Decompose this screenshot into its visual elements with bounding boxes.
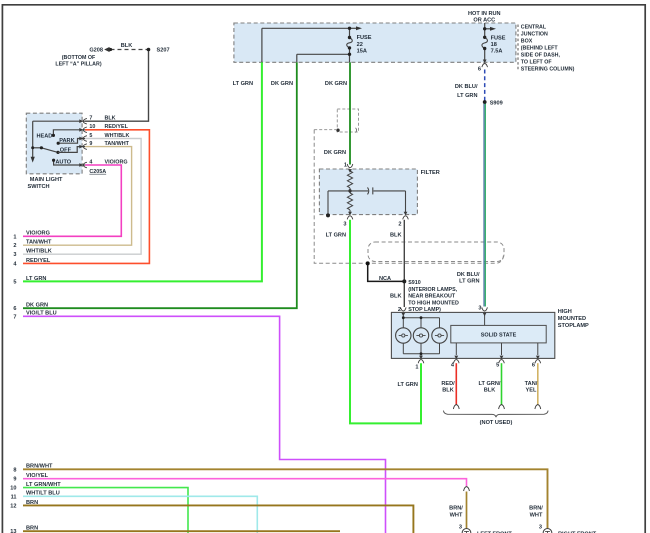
- svg-text:JUNCTION: JUNCTION: [521, 31, 548, 37]
- svg-text:STOP LAMP): STOP LAMP): [408, 307, 441, 313]
- svg-text:DK GRN: DK GRN: [271, 81, 293, 87]
- svg-text:BRN/: BRN/: [449, 506, 463, 512]
- svg-text:S910: S910: [408, 280, 421, 286]
- svg-text:HOT IN RUN: HOT IN RUN: [468, 11, 501, 17]
- svg-text:18: 18: [491, 42, 497, 48]
- svg-text:3: 3: [478, 306, 481, 312]
- svg-text:SOLID STATE: SOLID STATE: [481, 333, 517, 339]
- svg-text:LT GRN: LT GRN: [397, 382, 417, 388]
- svg-text:LT GRN/WHT: LT GRN/WHT: [26, 482, 61, 488]
- svg-text:1: 1: [13, 234, 16, 240]
- svg-text:STEERING COLUMN): STEERING COLUMN): [521, 67, 575, 73]
- svg-text:BRN/WHT: BRN/WHT: [26, 464, 53, 470]
- svg-text:LT GRN: LT GRN: [457, 93, 477, 99]
- svg-text:RED/YEL: RED/YEL: [26, 258, 51, 264]
- svg-text:WHT/BLK: WHT/BLK: [26, 249, 52, 255]
- svg-text:PARK: PARK: [59, 138, 74, 144]
- svg-text:3: 3: [343, 221, 346, 227]
- svg-text:9: 9: [89, 141, 92, 147]
- svg-text:8: 8: [13, 467, 16, 473]
- svg-text:10: 10: [89, 124, 95, 130]
- svg-text:CENTRAL: CENTRAL: [521, 24, 547, 30]
- svg-text:BRN/: BRN/: [529, 506, 543, 512]
- svg-text:S207: S207: [157, 48, 170, 54]
- svg-text:6: 6: [532, 363, 535, 369]
- svg-text:VIO/ORG: VIO/ORG: [26, 231, 50, 237]
- svg-text:BRN: BRN: [26, 526, 38, 532]
- svg-text:TAN/: TAN/: [525, 381, 538, 387]
- svg-text:3: 3: [539, 525, 542, 531]
- svg-text:2: 2: [398, 221, 401, 227]
- svg-text:10: 10: [10, 486, 16, 492]
- svg-text:NCA: NCA: [379, 276, 391, 282]
- svg-text:1: 1: [415, 365, 418, 371]
- svg-text:7: 7: [89, 116, 92, 122]
- svg-text:DK BLU/: DK BLU/: [455, 84, 478, 90]
- svg-text:6: 6: [478, 66, 481, 72]
- svg-text:5: 5: [496, 363, 499, 369]
- svg-text:11: 11: [11, 494, 17, 500]
- svg-text:12: 12: [10, 503, 16, 509]
- svg-text:RED/: RED/: [441, 381, 455, 387]
- svg-text:BLK: BLK: [484, 388, 496, 394]
- svg-text:2: 2: [13, 243, 16, 249]
- svg-text:BLK: BLK: [442, 388, 454, 394]
- svg-text:MOUNTED: MOUNTED: [558, 316, 586, 322]
- svg-text:6: 6: [13, 306, 16, 312]
- svg-text:BOX: BOX: [521, 39, 533, 45]
- svg-text:(NOT USED): (NOT USED): [480, 420, 513, 426]
- svg-text:BLK: BLK: [121, 43, 133, 49]
- svg-text:TO LEFT OF: TO LEFT OF: [521, 60, 553, 66]
- svg-text:MAIN LIGHT: MAIN LIGHT: [30, 177, 63, 183]
- svg-text:S909: S909: [490, 100, 503, 106]
- svg-text:13: 13: [10, 529, 16, 533]
- svg-text:LEFT “A” PILLAR): LEFT “A” PILLAR): [55, 62, 101, 68]
- svg-text:STOPLAMP: STOPLAMP: [558, 323, 589, 329]
- svg-text:9: 9: [13, 477, 16, 483]
- svg-text:DK BLU/: DK BLU/: [457, 272, 480, 278]
- svg-text:(BEHIND LEFT: (BEHIND LEFT: [521, 46, 559, 52]
- svg-text:SWITCH: SWITCH: [28, 184, 50, 190]
- svg-text:C205A: C205A: [89, 169, 106, 175]
- svg-text:BRN: BRN: [26, 500, 38, 506]
- svg-text:(INTERIOR LAMPS,: (INTERIOR LAMPS,: [408, 287, 457, 293]
- svg-text:TAN/WHT: TAN/WHT: [105, 141, 130, 147]
- svg-text:LT GRN: LT GRN: [233, 81, 253, 87]
- svg-text:LT GRN/: LT GRN/: [479, 381, 501, 387]
- svg-text:5: 5: [89, 133, 92, 139]
- svg-text:HIGH: HIGH: [558, 309, 572, 315]
- svg-text:3: 3: [459, 525, 462, 531]
- svg-text:WHT: WHT: [450, 512, 463, 518]
- svg-text:1: 1: [344, 163, 347, 169]
- svg-text:BLK: BLK: [390, 293, 402, 299]
- svg-text:5: 5: [13, 279, 16, 285]
- svg-text:NEAR BREAKOUT: NEAR BREAKOUT: [408, 294, 456, 300]
- svg-text:BLK: BLK: [105, 116, 116, 122]
- svg-text:WHT: WHT: [530, 512, 543, 518]
- svg-text:HEAD: HEAD: [36, 134, 52, 140]
- svg-text:FUSE: FUSE: [491, 35, 506, 41]
- svg-text:AUTO: AUTO: [55, 159, 71, 165]
- svg-text:VIO/YEL: VIO/YEL: [26, 473, 49, 479]
- svg-text:7: 7: [13, 314, 16, 320]
- svg-text:VIO/LT BLU: VIO/LT BLU: [26, 311, 57, 317]
- svg-text:OR ACC: OR ACC: [473, 18, 495, 24]
- svg-text:SIDE OF DASH,: SIDE OF DASH,: [521, 53, 561, 59]
- svg-text:FILTER: FILTER: [421, 170, 440, 176]
- svg-text:FUSE: FUSE: [357, 35, 372, 41]
- svg-text:G208: G208: [89, 48, 103, 54]
- svg-text:LT GRN: LT GRN: [326, 233, 346, 239]
- svg-text:22: 22: [357, 42, 363, 48]
- svg-text:15A: 15A: [357, 48, 367, 54]
- svg-text:3: 3: [13, 252, 16, 258]
- svg-text:TAN/WHT: TAN/WHT: [26, 240, 52, 246]
- svg-text:TO HIGH MOUNTED: TO HIGH MOUNTED: [408, 300, 459, 306]
- svg-text:WHT/LT BLU: WHT/LT BLU: [26, 491, 60, 497]
- svg-text:(BOTTOM OF: (BOTTOM OF: [62, 55, 96, 61]
- svg-text:4: 4: [89, 159, 92, 165]
- svg-text:RED/YEL: RED/YEL: [105, 124, 129, 130]
- svg-text:2: 2: [398, 307, 401, 313]
- svg-text:VIO/ORG: VIO/ORG: [105, 159, 128, 165]
- svg-text:DK GRN: DK GRN: [325, 81, 347, 87]
- svg-text:DK GRN: DK GRN: [26, 303, 48, 309]
- svg-text:LT GRN: LT GRN: [26, 276, 46, 282]
- svg-text:YEL: YEL: [526, 388, 537, 394]
- svg-text:LT GRN: LT GRN: [459, 278, 479, 284]
- svg-text:7.5A: 7.5A: [491, 49, 503, 55]
- svg-text:WHT/BLK: WHT/BLK: [105, 133, 130, 139]
- svg-text:BLK: BLK: [390, 233, 402, 239]
- svg-text:OFF: OFF: [60, 148, 72, 154]
- svg-text:DK GRN: DK GRN: [324, 150, 346, 156]
